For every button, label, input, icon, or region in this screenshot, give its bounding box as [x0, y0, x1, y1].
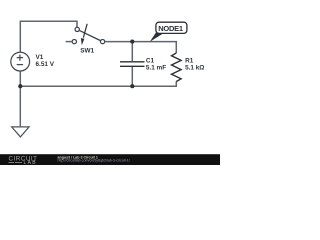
- wire ground drop: [19, 86, 21, 126]
- wire bottom rail: [20, 81, 176, 86]
- svg-text:SW1: SW1: [80, 47, 94, 54]
- terminal right: [100, 39, 104, 43]
- capacitor C1: [120, 62, 145, 67]
- svg-text:R1: R1: [185, 57, 194, 64]
- svg-text:5.1 mF: 5.1 mF: [146, 65, 166, 72]
- blade: [80, 31, 101, 41]
- watermark bar: [0, 154, 220, 165]
- wire C1 branch top: [131, 42, 133, 62]
- terminal top: [75, 27, 79, 31]
- voltage source V1: [11, 52, 30, 71]
- wire C1 branch bottom: [131, 67, 133, 86]
- wire V1 bottom to rail: [19, 71, 21, 86]
- svg-text:V1: V1: [36, 54, 44, 61]
- switch toggle arrow: [83, 24, 87, 38]
- terminal left: [72, 39, 76, 43]
- svg-text:LAB: LAB: [24, 160, 37, 165]
- wire stub SW1 left throw: [66, 41, 72, 43]
- junction dot C1 bottom: [130, 84, 134, 88]
- svg-text:6.51 V: 6.51 V: [36, 61, 55, 68]
- ground: [12, 127, 29, 137]
- svg-text:C1: C1: [146, 58, 155, 65]
- wire SW1 to R1 top: [105, 42, 176, 53]
- watermark logo squiggle: [9, 162, 15, 164]
- switch SW1: [72, 27, 105, 43]
- svg-text:http://circuitlab.com/c/e5y6qb: http://circuitlab.com/c/e5y6qb2/lab-3-ci…: [58, 159, 130, 163]
- junction dot V1 bottom: [18, 84, 22, 88]
- junction dot C1 top: [130, 40, 134, 44]
- svg-text:NODE1: NODE1: [158, 24, 183, 33]
- node NODE1 callout tail: [150, 33, 165, 42]
- node NODE1 callout bubble: [156, 22, 187, 33]
- wire top from V1 to SW1: [20, 21, 77, 52]
- resistor R1: [172, 53, 182, 81]
- svg-text:5.1 kΩ: 5.1 kΩ: [185, 65, 204, 72]
